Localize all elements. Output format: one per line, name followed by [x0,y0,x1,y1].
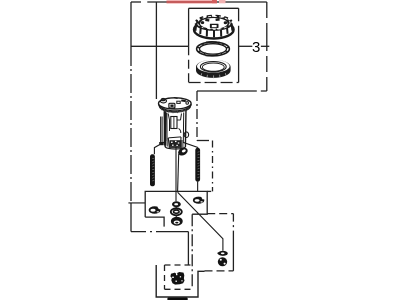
svg-text:3: 3 [252,39,260,56]
